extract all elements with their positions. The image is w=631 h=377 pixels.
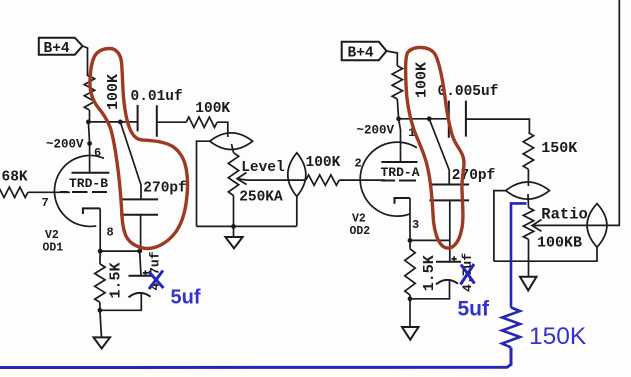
svg-text:6: 6 — [94, 146, 101, 160]
svg-text:100KB: 100KB — [537, 234, 582, 251]
ground bus (level) — [197, 225, 297, 227]
svg-text:V2: V2 — [45, 229, 59, 242]
svg-text:100K: 100K — [306, 155, 341, 171]
svg-text:0.01uf: 0.01uf — [131, 89, 183, 105]
wire diagonal plate to 270pf (right) — [429, 119, 449, 185]
power flag B+4 (left) — [39, 38, 83, 57]
junction — [98, 249, 103, 254]
junction — [427, 116, 432, 121]
svg-text:150K: 150K — [529, 323, 587, 350]
svg-text:2: 2 — [355, 156, 362, 170]
capacitor 270pf (left) — [120, 181, 187, 252]
svg-text:Level: Level — [241, 160, 285, 176]
svg-text:7: 7 — [42, 196, 49, 210]
node ~200V (left) — [46, 137, 92, 151]
wire flag to R1 — [83, 46, 88, 76]
svg-text:100K: 100K — [414, 62, 431, 98]
resistor 150K — [523, 133, 577, 186]
blue X annotation (right) — [461, 264, 475, 285]
cathode bus (right) — [410, 239, 450, 241]
svg-text:5uf: 5uf — [171, 286, 201, 308]
triode V2 OD2 (TRD-A) — [350, 126, 420, 241]
wire plate node (left) — [88, 121, 137, 123]
junction — [231, 224, 236, 229]
svg-text:68K: 68K — [2, 170, 28, 186]
wire wiper to lens — [247, 179, 288, 181]
resistor 100K (grid OD2) — [306, 155, 341, 185]
capacitor C 0.005uf — [438, 84, 530, 138]
resistor 1.5K (right cathode) — [405, 240, 438, 298]
junction — [118, 120, 123, 125]
wire wiper to lens (ratio) — [542, 224, 587, 226]
blue resistor 150K (mod) — [502, 308, 520, 348]
connector lens (level top) — [210, 133, 253, 153]
svg-text:TRD-A: TRD-A — [381, 165, 420, 180]
wire lens left to loop — [494, 191, 506, 262]
resistor R1 100K (left plate load) — [84, 74, 122, 122]
power flag B+4 (right) — [342, 42, 387, 62]
capacitor 270pf (right) — [429, 168, 495, 240]
wire to plate — [88, 122, 89, 173]
wire resistor to lens — [217, 122, 228, 137]
blue X annotation (left) — [149, 271, 164, 290]
svg-text:250KA: 250KA — [239, 190, 283, 206]
svg-text:3: 3 — [412, 218, 419, 232]
svg-text:~200V: ~200V — [357, 123, 395, 137]
wire lens left to ground bus — [197, 141, 210, 226]
ground (left cathode) — [94, 310, 111, 348]
svg-text:B+4: B+4 — [348, 46, 374, 62]
wire plate node (right) — [399, 118, 449, 120]
ground (ratio) — [520, 277, 537, 291]
potentiometer Level 250KA — [228, 153, 285, 227]
svg-text:270pf: 270pf — [143, 181, 187, 197]
resistor 68K — [0, 170, 70, 198]
svg-text:100K: 100K — [105, 74, 122, 110]
wire lens bottom to ground bus — [296, 196, 298, 226]
ground (level) — [225, 226, 242, 248]
red annotation circle (left) — [90, 49, 188, 249]
junction — [396, 116, 401, 121]
svg-text:Ratio: Ratio — [541, 206, 588, 224]
capacitor C 0.01uf — [131, 89, 187, 137]
resistor 100K (left coupling) — [186, 101, 230, 128]
connector lens (ratio wiper) — [587, 204, 607, 248]
blue mod wire — [511, 203, 527, 307]
resistor 100K (right plate load) — [392, 62, 430, 119]
junction — [98, 308, 103, 313]
svg-text:270pf: 270pf — [452, 168, 496, 184]
wire to grid pin2 — [339, 179, 385, 181]
junction — [137, 249, 142, 254]
svg-text:1.5K: 1.5K — [108, 262, 125, 298]
connector lens (ratio top) — [506, 182, 550, 207]
svg-text:OD2: OD2 — [350, 225, 371, 238]
triode V2 OD1 (TRD-B) — [42, 146, 114, 254]
svg-text:1.5K: 1.5K — [421, 255, 438, 291]
svg-text:TRD-B: TRD-B — [69, 176, 108, 191]
svg-text:~200V: ~200V — [46, 137, 84, 151]
cathode bus (left) — [100, 250, 141, 252]
output wire (right edge) — [607, 0, 619, 225]
wire cathode down — [99, 251, 101, 264]
capacitor 4.7uf (left bypass) — [100, 251, 163, 310]
wire diagonal plate to 270pf — [120, 122, 141, 199]
potentiometer Ratio 100KB — [523, 206, 588, 277]
svg-text:5uf: 5uf — [458, 298, 491, 321]
junction — [408, 238, 413, 243]
red annotation circle (right) — [406, 47, 464, 248]
svg-text:8: 8 — [107, 225, 114, 239]
wire to plate (right) — [399, 119, 401, 162]
svg-text:B+4: B+4 — [44, 41, 70, 57]
svg-text:150K: 150K — [541, 140, 577, 157]
connector lens (level wiper) — [288, 153, 306, 197]
capacitor 4.7uf (right bypass) — [410, 240, 475, 298]
svg-text:100K: 100K — [195, 101, 230, 117]
resistor 1.5K (left cathode) — [95, 262, 125, 310]
wire lens bottom to loop — [494, 247, 597, 261]
ground (right cathode) — [402, 299, 419, 340]
svg-text:V2: V2 — [352, 213, 366, 226]
junction — [408, 296, 413, 301]
junction — [86, 120, 91, 125]
blue mod wire bottom — [0, 348, 511, 368]
svg-text:OD1: OD1 — [43, 241, 64, 254]
wire flag to R (right) — [387, 51, 398, 66]
